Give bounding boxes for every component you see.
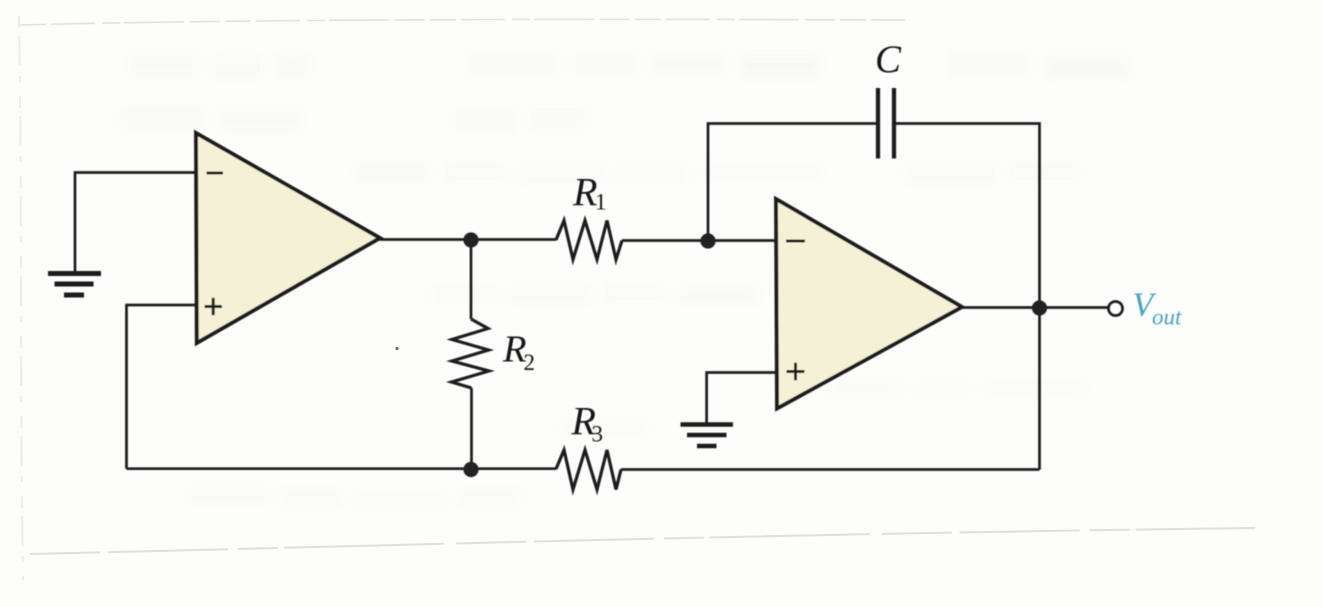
svg-text:R: R <box>572 170 597 215</box>
svg-text:2: 2 <box>524 350 536 375</box>
svg-text:3: 3 <box>592 422 604 447</box>
svg-text:1: 1 <box>595 190 607 215</box>
svg-text:C: C <box>875 38 902 81</box>
svg-text:out: out <box>1152 305 1182 330</box>
